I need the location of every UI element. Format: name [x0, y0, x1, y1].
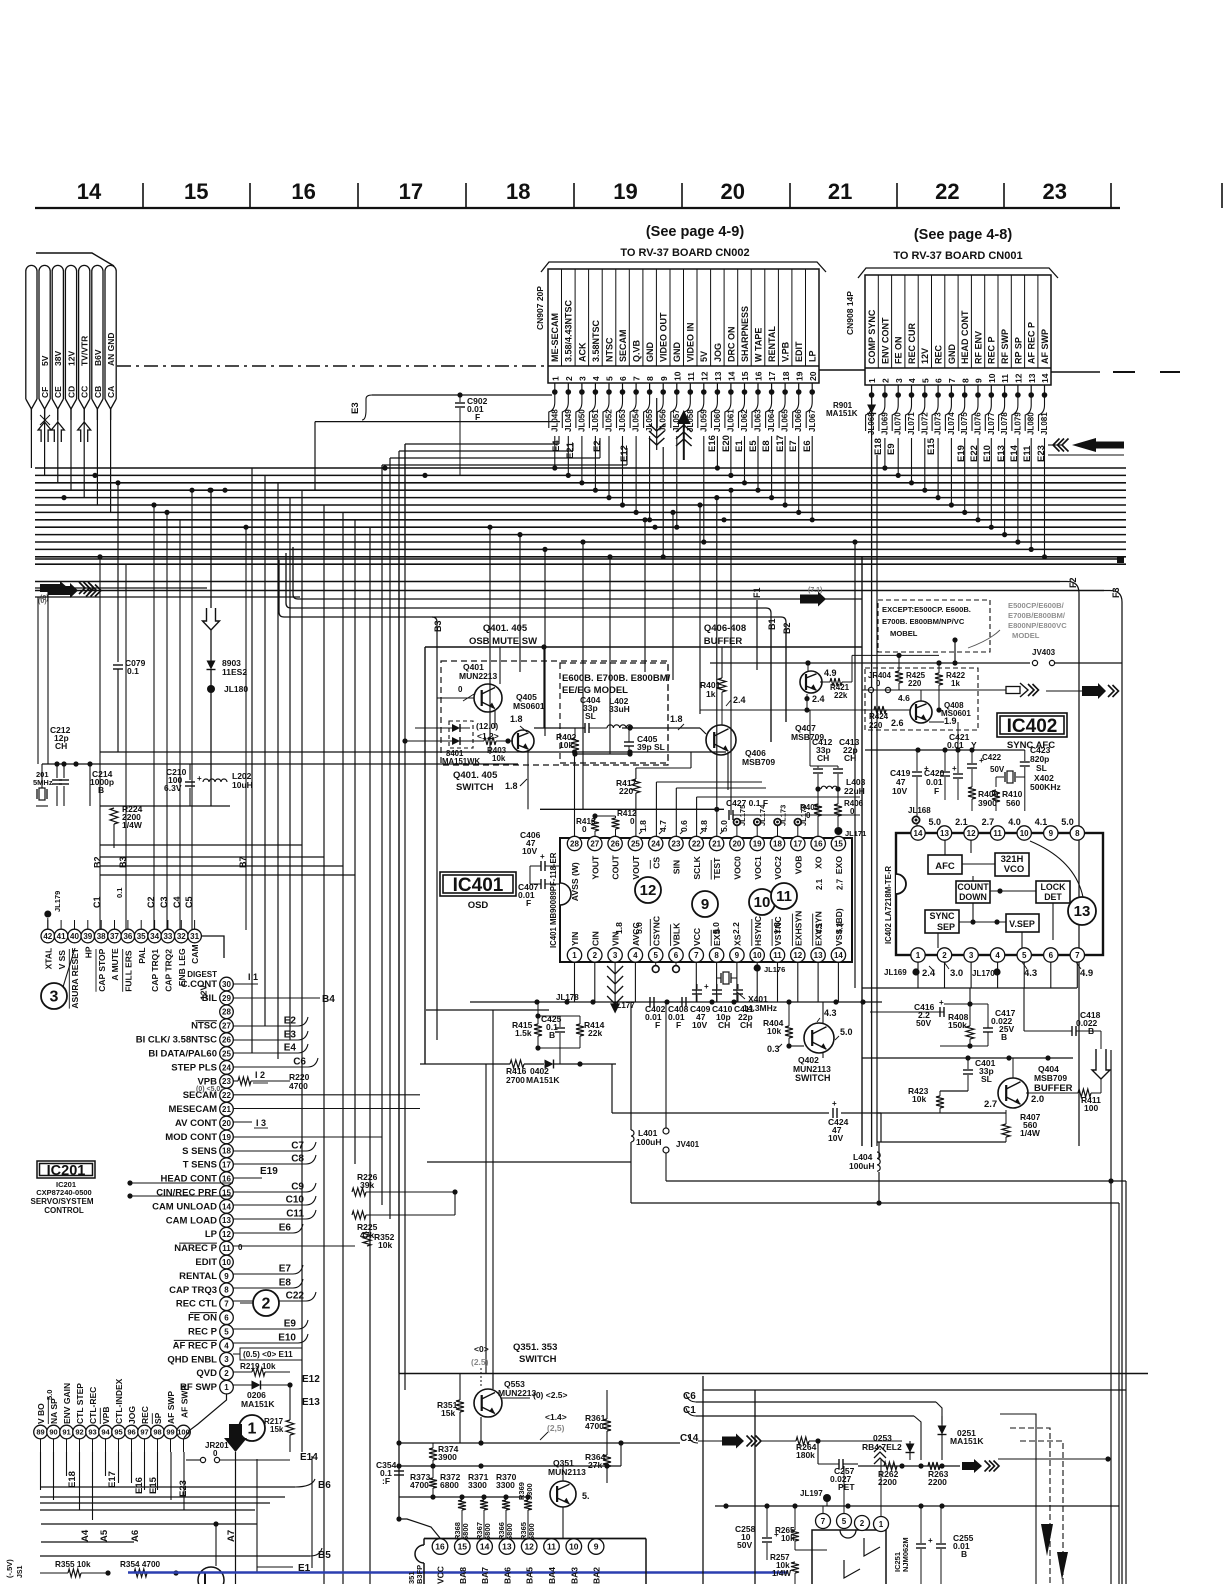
connector CN908 pin 9 RF ENV — [984, 275, 986, 368]
resistor R263 2200 — [928, 1462, 940, 1470]
crystal X402 500KHz — [1004, 772, 1006, 782]
svg-text:MA151K: MA151K — [950, 1436, 984, 1446]
IC201 pin 22 SECAM — [220, 1088, 234, 1102]
svg-text:E1: E1 — [734, 440, 745, 452]
svg-text:90: 90 — [49, 1428, 57, 1437]
svg-text:A6: A6 — [130, 1530, 141, 1542]
svg-text:1.8: 1.8 — [505, 781, 518, 791]
jumper labels JL048-JL067 — [549, 394, 555, 428]
svg-text:PAL: PAL — [137, 947, 147, 963]
svg-text:LP: LP — [205, 1229, 218, 1240]
svg-text:10: 10 — [753, 951, 762, 960]
svg-text:1: 1 — [224, 1383, 229, 1392]
svg-text:FE ON: FE ON — [188, 1313, 217, 1324]
wire corners bottom right to rails — [1000, 1414, 1036, 1584]
IC201 pin3 resistor wire — [233, 1357, 252, 1359]
svg-text:A MUTE: A MUTE — [110, 948, 120, 981]
svg-text:10V: 10V — [692, 1020, 707, 1030]
svg-text:13: 13 — [1074, 903, 1091, 920]
svg-text:2.7: 2.7 — [836, 878, 845, 890]
wire rail y1466 right — [858, 1465, 960, 1467]
svg-text:5: 5 — [842, 1517, 847, 1526]
IC251 body outline — [812, 1530, 886, 1584]
svg-text:JL173: JL173 — [779, 805, 788, 826]
svg-text:40: 40 — [70, 932, 79, 941]
svg-text:7: 7 — [632, 376, 642, 381]
svg-text:6: 6 — [618, 376, 628, 381]
svg-text:CAP TRQ1: CAP TRQ1 — [150, 949, 160, 992]
svg-text:BUFFER: BUFFER — [704, 636, 743, 647]
svg-text:MOBEL: MOBEL — [890, 629, 918, 638]
small x mark on pin CF wire — [40, 415, 50, 425]
svg-text:4.7: 4.7 — [658, 820, 668, 832]
svg-text:JL052: JL052 — [605, 409, 614, 432]
svg-text:E5: E5 — [748, 440, 759, 452]
IC201 top pin 40 ASURA RESET — [68, 929, 82, 943]
svg-text:Q401. 405: Q401. 405 — [483, 623, 528, 634]
svg-text:BA8: BA8 — [458, 1567, 468, 1584]
svg-text:11: 11 — [773, 951, 782, 960]
wire Q401 collector up — [499, 647, 501, 684]
svg-text:1k: 1k — [951, 679, 960, 688]
svg-text:4: 4 — [995, 951, 1000, 960]
svg-text:F: F — [655, 1020, 660, 1030]
arrow open with chevrons mid — [1006, 687, 1020, 694]
svg-text:OSD: OSD — [468, 900, 489, 911]
svg-text:TEST: TEST — [712, 857, 722, 880]
svg-text:4.8: 4.8 — [699, 820, 709, 832]
IC201 tag C10 — [233, 1196, 316, 1205]
svg-text:E18: E18 — [67, 1471, 78, 1488]
svg-text:23: 23 — [222, 1077, 231, 1086]
svg-text:JL075: JL075 — [960, 412, 969, 435]
svg-text:22uH: 22uH — [844, 786, 865, 796]
svg-text:ENV GAIN: ENV GAIN — [62, 1383, 72, 1424]
grid ruler line — [35, 207, 1120, 209]
IC402 pin 8 — [1070, 826, 1084, 840]
svg-text:17: 17 — [793, 839, 802, 848]
svg-text:E600B. E700B. E800BM/: E600B. E700B. E800BM/ — [562, 673, 671, 684]
IC201 pin 25 BI DATA/PAL60 — [220, 1047, 234, 1061]
capacitor C402 0.01 F in line — [649, 997, 651, 1007]
IC401 body — [560, 838, 852, 962]
connector CN907 pin 14 DRC ON — [737, 269, 739, 366]
wires top pins verticals short — [47, 920, 49, 929]
wire Q405 to C404 — [534, 727, 585, 729]
svg-text:14: 14 — [727, 371, 737, 381]
wire rail y1497 — [399, 1496, 530, 1498]
IC201 tag E3 — [233, 1031, 308, 1040]
IC402 inner wires — [962, 863, 995, 865]
svg-text:JL197: JL197 — [800, 1489, 823, 1498]
IC401 pin 24 CS — [649, 836, 663, 850]
svg-text:5: 5 — [1022, 951, 1027, 960]
svg-text:17: 17 — [767, 371, 777, 381]
connector CN907 pin 15 SHARPNESS — [750, 269, 752, 366]
svg-text:AVSS (W): AVSS (W) — [570, 862, 580, 901]
svg-text:3: 3 — [578, 376, 588, 381]
svg-text:<1.4>: <1.4> — [545, 1412, 567, 1422]
svg-text:1k: 1k — [706, 689, 716, 699]
IC201 bottom pin 99 — [164, 1425, 178, 1439]
wire vertical x216 transistor — [215, 1524, 217, 1566]
IC201 pin 29 BIL — [220, 991, 234, 1005]
svg-text:4.9: 4.9 — [824, 668, 837, 678]
IC402 body — [896, 833, 1103, 955]
svg-text:JL179: JL179 — [53, 891, 62, 912]
svg-text:2.7: 2.7 — [984, 1099, 997, 1110]
IC401 test point 10 — [749, 889, 775, 915]
svg-text:AFC: AFC — [935, 861, 955, 872]
svg-text:BUFFER: BUFFER — [1034, 1083, 1073, 1094]
IC401 pin 28 AVSS (W) — [567, 836, 581, 850]
svg-text:12: 12 — [1014, 373, 1024, 383]
svg-text:2.1: 2.1 — [955, 817, 968, 827]
up chevron arrow on R262 wire — [874, 1446, 886, 1452]
svg-text:CIN: CIN — [590, 931, 600, 946]
svg-text:15k: 15k — [270, 1425, 284, 1434]
svg-text:SERVO/SYSTEM: SERVO/SYSTEM — [31, 1197, 94, 1206]
svg-text:CH: CH — [844, 753, 856, 763]
connector CN907 pin 7 Q.VB — [642, 269, 644, 366]
svg-text:CTL STEP: CTL STEP — [75, 1383, 85, 1424]
svg-text:CSYNC: CSYNC — [651, 916, 661, 946]
wires left connector pins to bus — [30, 409, 32, 468]
IC402 test point 13 — [1068, 897, 1096, 925]
connector CN908 pin 3 FE ON — [904, 275, 906, 368]
svg-text:CD: CD — [66, 386, 76, 398]
IC351 pin 14 BA7 — [477, 1539, 493, 1555]
IC201 pin 13 CAM LOAD — [220, 1214, 234, 1228]
IC401 pin 6 VBLK — [669, 948, 683, 962]
svg-text:XTAL: XTAL — [43, 948, 53, 970]
transistor Q402 MUN2113 switch — [804, 1023, 834, 1053]
IC201 tag C7 — [233, 1142, 316, 1151]
jumper point JL179 — [44, 911, 51, 918]
svg-text:14: 14 — [480, 1542, 490, 1552]
inductor L202 10uH — [203, 779, 227, 782]
svg-text:19: 19 — [613, 179, 637, 204]
svg-text:18: 18 — [222, 1147, 231, 1156]
svg-text:E14: E14 — [300, 1452, 318, 1463]
svg-text:FE ON: FE ON — [894, 336, 904, 364]
svg-text:CTL-INDEX: CTL-INDEX — [114, 1378, 124, 1424]
svg-text:JL061: JL061 — [726, 409, 735, 432]
svg-text:TO RV-37 BOARD CN001: TO RV-37 BOARD CN001 — [893, 250, 1022, 262]
svg-text:VCO: VCO — [1004, 864, 1025, 875]
svg-text:5: 5 — [605, 376, 615, 381]
wire y710 rail — [700, 709, 910, 711]
svg-text:14: 14 — [914, 829, 923, 838]
board boundary dash-dot line — [117, 365, 548, 367]
connector CN? left bracket — [36, 253, 114, 266]
svg-text:E16: E16 — [707, 435, 718, 452]
IC201 top pin 41 V SS — [54, 929, 68, 943]
svg-text:JOG: JOG — [713, 343, 723, 362]
svg-text:V BO: V BO — [36, 1403, 46, 1424]
svg-text:4: 4 — [224, 1341, 229, 1350]
resistor R411 100 — [1078, 1089, 1091, 1097]
svg-text:E17: E17 — [107, 1471, 118, 1488]
resistor R421 22k — [830, 678, 842, 686]
svg-text:4.3: 4.3 — [824, 1008, 837, 1018]
svg-text:2.4: 2.4 — [733, 695, 746, 705]
svg-text:3.58/4.43NTSC: 3.58/4.43NTSC — [564, 299, 574, 362]
svg-text:+: + — [928, 1536, 933, 1545]
svg-text:CC: CC — [80, 386, 90, 398]
svg-text:SL: SL — [585, 711, 596, 721]
wire rail y1443 — [399, 1442, 680, 1444]
dashed box EXCEPT models — [878, 600, 990, 652]
svg-text:36: 36 — [123, 932, 132, 941]
svg-text:JL174: JL174 — [758, 804, 767, 826]
IC201 pin29 tag B4 wire — [233, 997, 320, 999]
wire pin28 up — [574, 752, 576, 836]
svg-text:7: 7 — [1075, 951, 1080, 960]
IC201 pin30 tag I1 — [233, 983, 258, 985]
svg-text:T SENS: T SENS — [183, 1160, 217, 1171]
svg-text:11: 11 — [1000, 374, 1010, 383]
svg-text:2.0: 2.0 — [1031, 1094, 1044, 1105]
svg-text:10: 10 — [672, 371, 682, 381]
connector CN907 pin 10 GND — [683, 269, 685, 366]
svg-text:STEP PLS: STEP PLS — [171, 1062, 217, 1073]
svg-text:B: B — [961, 1549, 967, 1559]
svg-text:AF SWP: AF SWP — [180, 1385, 190, 1418]
wire rail y1002 below IC401 — [470, 1001, 882, 1003]
svg-text:MUN2213: MUN2213 — [459, 671, 498, 681]
bus line y559 with end dot — [35, 558, 1120, 560]
IC401 test point 9 — [692, 891, 718, 917]
svg-text:DRC ON: DRC ON — [726, 327, 736, 363]
svg-text:JL073: JL073 — [934, 412, 943, 435]
svg-text:TV/VTR: TV/VTR — [80, 336, 90, 366]
svg-text:24: 24 — [222, 1063, 231, 1072]
svg-text:MS0601: MS0601 — [513, 701, 545, 711]
solid arrowheads bottom right — [1041, 1524, 1053, 1556]
svg-text:19: 19 — [753, 839, 762, 848]
svg-text:E20: E20 — [721, 435, 732, 452]
IC201 pin 24 STEP PLS — [220, 1061, 234, 1075]
svg-text:0.1: 0.1 — [115, 888, 124, 898]
IC401 pin 11 VSYNC — [770, 948, 784, 962]
svg-text:JL067: JL067 — [808, 409, 817, 432]
svg-text:30: 30 — [222, 980, 231, 989]
svg-text:3300: 3300 — [468, 1480, 487, 1490]
fat arrow with chevrons C14 — [722, 1434, 744, 1449]
IC401 pin 2 CIN — [588, 948, 602, 962]
svg-text:20: 20 — [732, 839, 741, 848]
svg-text:1.8: 1.8 — [638, 820, 648, 832]
svg-text:1.8: 1.8 — [510, 714, 523, 724]
svg-text:10V: 10V — [892, 786, 907, 796]
svg-text:E9: E9 — [886, 443, 897, 455]
resistor R403 10k — [484, 737, 496, 745]
connector CN907 pin 18 V.PB — [791, 269, 793, 366]
resistor R224 2200 1/4W — [113, 751, 115, 808]
svg-text:E2: E2 — [592, 440, 603, 452]
svg-text:SEP: SEP — [937, 922, 955, 932]
svg-text:2: 2 — [224, 1369, 229, 1378]
svg-text:2.4: 2.4 — [812, 694, 825, 704]
svg-text:0: 0 — [238, 1243, 243, 1252]
connector CN908 pin 7 GND — [957, 275, 959, 368]
IC401 pin 3 VIN — [608, 948, 622, 962]
svg-text:9: 9 — [974, 378, 984, 383]
svg-text:20: 20 — [222, 1119, 231, 1128]
IC401 pin 21 TEST — [709, 836, 723, 850]
svg-text:180k: 180k — [796, 1450, 815, 1460]
svg-text:IC201: IC201 — [47, 1163, 86, 1179]
svg-text:9: 9 — [224, 1272, 229, 1281]
svg-text:CAM UNLOAD: CAM UNLOAD — [152, 1201, 217, 1212]
wires CN907 pins to bus — [554, 436, 556, 468]
svg-text:IC402: IC402 — [1007, 716, 1058, 737]
svg-text:B6: B6 — [318, 1480, 331, 1491]
svg-text:23: 23 — [1042, 179, 1066, 204]
IC201 bottom pin 97 — [138, 1425, 152, 1439]
svg-text:11: 11 — [547, 1542, 556, 1552]
svg-text:18: 18 — [781, 371, 791, 381]
svg-text:B: B — [98, 785, 104, 795]
transistor Q408 MS0601 — [910, 701, 932, 723]
svg-text:28: 28 — [222, 1008, 231, 1017]
svg-text:Y: Y — [971, 740, 977, 750]
svg-text:+: + — [939, 998, 944, 1007]
svg-text:CTL-REC: CTL-REC — [88, 1387, 98, 1424]
svg-text:C422: C422 — [982, 753, 1002, 762]
svg-text:VBLK: VBLK — [672, 922, 682, 946]
svg-text:1: 1 — [879, 1520, 884, 1529]
svg-text:13: 13 — [713, 371, 723, 381]
svg-text:29: 29 — [222, 994, 231, 1003]
svg-text:15: 15 — [834, 839, 843, 848]
IC401 test point 11 — [771, 883, 797, 909]
svg-text:2: 2 — [593, 951, 598, 960]
svg-text:4: 4 — [907, 378, 917, 383]
svg-text:JL049: JL049 — [564, 409, 573, 432]
svg-text:S SENS: S SENS — [182, 1146, 217, 1157]
bus wires lower group — [35, 581, 1060, 583]
IC402 inner block LOCK DET — [1036, 881, 1070, 903]
svg-text:12: 12 — [640, 882, 657, 899]
transistor Q404 MSB709 buffer — [998, 1078, 1028, 1108]
wire pin23 up — [675, 788, 677, 836]
IC201 tag E4 — [233, 1044, 308, 1053]
connector CN907 pin 11 VIDEO IN — [696, 269, 698, 366]
svg-text:4.1: 4.1 — [1035, 817, 1048, 827]
svg-text:11: 11 — [776, 888, 792, 905]
IC401 pin 14 VSS (BD) — [831, 948, 845, 962]
svg-text:0.6: 0.6 — [679, 820, 689, 832]
test point circle 1 — [239, 1415, 265, 1441]
svg-text:SCLK: SCLK — [692, 855, 702, 879]
svg-text:Q406-408: Q406-408 — [704, 623, 746, 634]
svg-text:89: 89 — [36, 1428, 44, 1437]
svg-text:JL051: JL051 — [591, 409, 600, 432]
svg-text:VOC1: VOC1 — [753, 856, 763, 880]
svg-text:E4: E4 — [284, 1043, 297, 1054]
svg-text:26: 26 — [222, 1036, 231, 1045]
IC351 pin 15 BA8 — [455, 1539, 471, 1555]
svg-text:0.3: 0.3 — [767, 1044, 780, 1054]
connector CN908 pin 6 REC — [944, 275, 946, 368]
svg-text:EDIT: EDIT — [794, 341, 804, 362]
IC401 pin 15 EXO — [831, 836, 845, 850]
svg-text:10: 10 — [1020, 829, 1029, 838]
svg-text:2: 2 — [860, 1519, 865, 1528]
svg-text:+: + — [979, 756, 984, 765]
svg-text:5.0: 5.0 — [45, 1390, 54, 1400]
svg-text:0: 0 — [806, 811, 811, 820]
svg-text:E4: E4 — [551, 440, 562, 452]
svg-text:BI CLK/ 3.58NTSC: BI CLK/ 3.58NTSC — [136, 1035, 217, 1046]
svg-text:(See page 4-9): (See page 4-9) — [646, 224, 744, 240]
capacitor C214 1000p B — [56, 764, 58, 778]
IC201 top pin 32 ENB LEG — [175, 929, 189, 943]
inductor L403 22uH — [821, 786, 838, 789]
svg-text:F3: F3 — [1111, 587, 1121, 598]
svg-text:AF REC P: AF REC P — [1027, 322, 1037, 364]
svg-text:W TAPE: W TAPE — [753, 328, 763, 362]
svg-text:1: 1 — [867, 378, 877, 383]
IC201 pin 17 T SENS — [220, 1158, 234, 1172]
svg-text:3300: 3300 — [496, 1480, 515, 1490]
wire channel verticals — [301, 490, 303, 1452]
svg-text:15: 15 — [458, 1542, 468, 1552]
svg-text:JL170: JL170 — [972, 969, 995, 978]
jumper point JL180 — [207, 685, 215, 693]
svg-text:27: 27 — [222, 1022, 231, 1031]
svg-text:REC P: REC P — [188, 1327, 218, 1338]
svg-text:JOG: JOG — [127, 1406, 137, 1424]
IC201 tag C11 — [233, 1210, 316, 1219]
IC402 inner block SYNC SEP — [925, 910, 959, 933]
svg-text:(12.0): (12.0) — [476, 721, 498, 731]
svg-text:F: F — [676, 1020, 681, 1030]
IC201 pin11 wire — [233, 1245, 355, 1247]
svg-text:25: 25 — [222, 1049, 231, 1058]
svg-text:1: 1 — [248, 1421, 257, 1438]
svg-text:R354 4700: R354 4700 — [120, 1560, 161, 1569]
svg-text:8: 8 — [1075, 829, 1080, 838]
IC401 pin 9 XS — [730, 948, 744, 962]
svg-text:8: 8 — [960, 378, 970, 383]
svg-text:22k: 22k — [588, 1028, 602, 1038]
scanner blue line artifact — [128, 1571, 788, 1573]
svg-text:(0.5) <0> E11: (0.5) <0> E11 — [243, 1350, 293, 1359]
svg-text:SYNC: SYNC — [929, 911, 955, 921]
svg-text:27k: 27k — [588, 1460, 602, 1470]
wire rail y1506 — [715, 1505, 1119, 1507]
wire E4 horizontal y444 — [558, 436, 560, 444]
svg-text:2: 2 — [942, 951, 947, 960]
svg-text:16: 16 — [814, 839, 823, 848]
svg-text:5.0: 5.0 — [719, 820, 729, 832]
svg-text:2200: 2200 — [928, 1477, 947, 1487]
svg-text:14: 14 — [222, 1202, 231, 1211]
IC351 pin 11 BA4 — [544, 1539, 560, 1555]
svg-text:39p SL: 39p SL — [637, 742, 665, 752]
svg-text:9: 9 — [594, 1542, 599, 1552]
svg-text:2.4: 2.4 — [922, 968, 936, 979]
svg-text:4: 4 — [591, 376, 601, 381]
svg-text:4700: 4700 — [585, 1421, 604, 1431]
svg-text:0: 0 — [582, 825, 587, 834]
IC201 bottom pin 96 — [125, 1425, 139, 1439]
IC201 tag E10 — [233, 1334, 308, 1343]
svg-text:A5: A5 — [99, 1529, 110, 1542]
